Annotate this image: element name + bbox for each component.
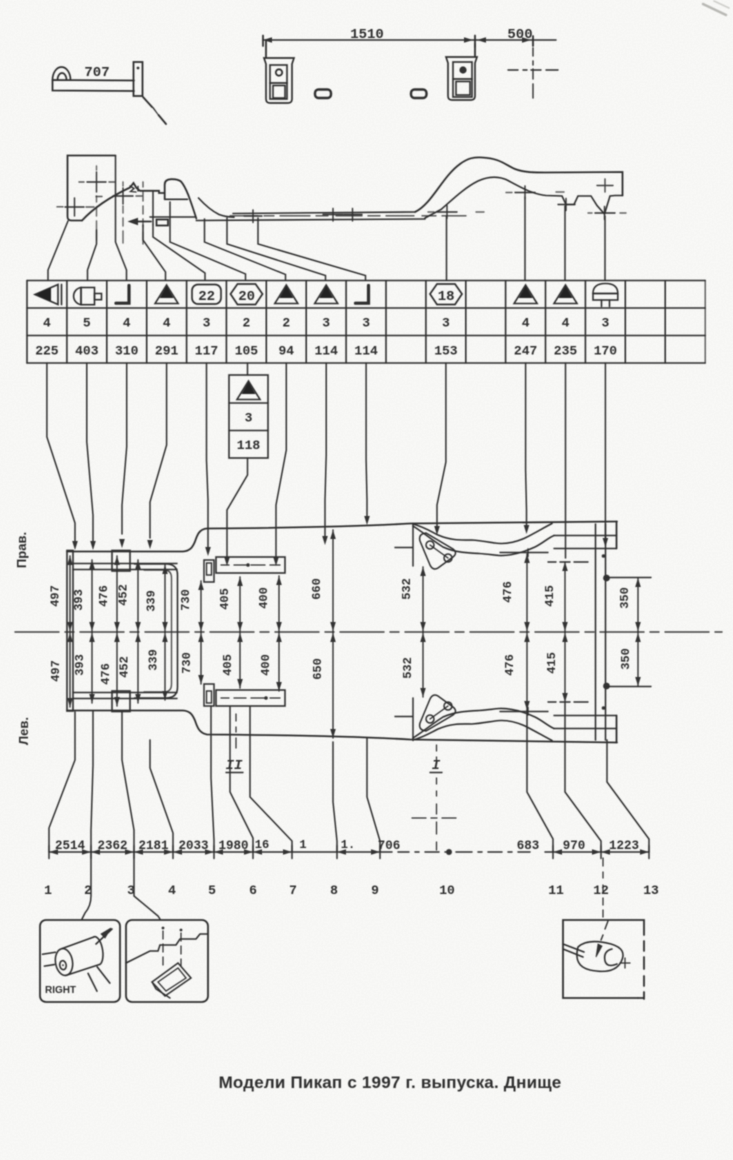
svg-text:532: 532 [400,578,414,600]
svg-text:476: 476 [501,581,515,603]
svg-text:339: 339 [145,590,159,612]
svg-text:476: 476 [503,654,517,676]
tool icon 707 : end block [134,62,143,96]
svg-text:16: 16 [255,838,269,852]
svg-text:1: 1 [299,838,306,852]
svg-text:118: 118 [237,438,261,453]
svg-text:400: 400 [259,654,273,676]
leader st12 [565,703,601,852]
right body mount [446,44,477,100]
dim 405 bottom [221,632,243,688]
side view rear kickup outline bottom [425,177,623,218]
leader col1 to plan [47,363,78,550]
svg-text:8: 8 [330,883,338,898]
leader st7 [250,707,292,852]
leader to col5 [153,225,205,281]
svg-text:1510: 1510 [350,27,384,43]
crosshair G rail mid3 [344,209,362,222]
dim 350 bottom [619,632,641,686]
rail center dash-dot line [230,215,466,217]
slot hole left [315,90,331,99]
dim 452 bottom [118,632,141,703]
side view front rail rising edge [82,183,165,221]
tool icon 707 : hook arch [53,67,71,80]
detail box2 frame [126,920,208,1002]
leader chain to box3 dashed [602,858,604,917]
svg-text:3: 3 [203,316,211,331]
dim 452 top [117,560,141,632]
leader to col7 [205,219,286,280]
crosshair I rear top [506,186,564,199]
box2 tilted bracket [152,963,191,998]
dim 393 top [72,560,95,632]
leader to col15 [604,216,606,280]
crosshair K notch2 [588,207,626,220]
svg-text:403: 403 [75,344,99,359]
svg-text:415: 415 [545,652,559,674]
rear rail wave bottom outer [413,721,552,741]
front box inner [144,570,172,692]
svg-text:683: 683 [517,839,540,853]
svg-text:2181: 2181 [138,839,168,853]
svg-text:3: 3 [362,316,370,331]
dim 405 top [218,577,243,632]
dim 730 top [179,581,204,632]
rear rail wave bottom inner [413,708,554,738]
svg-text:339: 339 [147,649,161,671]
symbol col9 : angle bracket [356,286,369,304]
svg-text:3: 3 [442,316,450,331]
extension ticks rear [500,549,651,715]
leader to col6 [170,202,246,280]
svg-text:94: 94 [278,344,294,359]
box2 dash verticals [162,927,183,966]
svg-text:650: 650 [311,658,325,680]
svg-text:3: 3 [601,316,609,331]
svg-text:247: 247 [514,344,537,359]
rear rail inner top [554,548,617,550]
svg-text:291: 291 [155,344,179,359]
svg-text:452: 452 [118,656,132,678]
symbol col14 : triangle [554,285,577,304]
rear rail crease bottom [554,728,617,730]
svg-text:Модели Пикап с 1997 г. выпуска: Модели Пикап с 1997 г. выпуска. Днище [219,1073,562,1092]
dim 415 bottom [545,632,568,702]
chain ticks [49,846,649,859]
svg-text:5: 5 [83,316,91,331]
svg-text:153: 153 [434,344,458,359]
svg-text:4: 4 [522,316,530,331]
svg-text:970: 970 [563,839,586,853]
leader col6 to plan [224,458,247,566]
svg-text:730: 730 [180,652,194,674]
svg-text:2033: 2033 [178,839,208,853]
symbol col1 : arrow-left pennant [35,285,62,305]
leader st11 [527,710,553,852]
svg-text:20: 20 [238,289,255,305]
box2 floor profile [126,934,208,963]
left body mount [264,40,294,103]
dim 400 top [257,576,282,632]
detail box1 frame [40,920,120,1002]
leader to col14 [564,206,566,280]
svg-text:II: II [226,758,243,774]
dim 476 bottom [99,632,120,706]
rear rail crease top [554,535,617,537]
leader st9 [367,738,380,852]
svg-text:4: 4 [163,316,171,331]
svg-text:350: 350 [618,587,632,609]
leader col2 to plan [87,363,96,550]
svg-text:400: 400 [257,587,271,609]
svg-text:415: 415 [543,585,557,607]
svg-text:11: 11 [548,883,564,898]
chain node dot [446,849,452,855]
dim 730 bottom [180,632,204,684]
svg-text:405: 405 [221,654,235,676]
leader col5 to plan [205,363,211,556]
rear rail inner bottom [554,715,617,717]
rear junction vertical [395,524,413,741]
svg-text:1.: 1. [341,838,355,852]
leader to col9 [258,218,366,280]
leader col9 to plan [364,363,370,525]
rear end vertical top [616,522,618,549]
tool icon 707 : pointer arrow [143,97,166,124]
dim 350 top [618,578,641,632]
svg-text:170: 170 [594,344,618,359]
rear crossmember verticals [596,524,610,740]
rail inner edges bottom [73,693,177,699]
side view small bracket box [157,220,169,226]
leader chain to box2 [134,852,160,919]
crosshair C [96,182,142,243]
svg-text:1223: 1223 [609,839,639,853]
top dimension line 1510/500 [263,36,556,48]
mini table triangle [237,381,260,400]
crosshair datum right [508,48,558,98]
rear rail wave top outer [413,524,552,544]
svg-text:393: 393 [73,654,87,676]
side view rear kickup outline top [415,157,623,212]
corner scratch [703,4,726,15]
section label II [226,714,243,774]
svg-text:730: 730 [179,589,193,611]
side view mid rail lines [233,212,415,214]
table row2 counts [43,316,610,331]
dim 400 bottom [259,632,282,691]
leader col11 to plan [434,363,446,535]
svg-text:9: 9 [371,883,379,898]
svg-text:4: 4 [168,883,176,898]
leader col14 to plan [565,363,567,558]
leader to col2 [88,230,97,280]
box1 arrow [96,928,112,944]
dim 650 [311,632,336,738]
rail outer edge bottom [67,711,617,743]
symbol col15 : plug cap [593,284,618,307]
svg-text:2: 2 [282,316,290,331]
svg-text:13: 13 [643,883,659,898]
leader st2 [91,711,93,852]
rear rail wave top inner [413,526,554,556]
crosshair H kick area [428,206,484,219]
svg-text:497: 497 [49,660,63,682]
svg-text:476: 476 [99,663,113,685]
transmission crossmember bottom [216,690,285,706]
svg-text:RIGHT: RIGHT [45,985,76,996]
svg-text:1980: 1980 [218,839,248,853]
leader col7 to plan [273,363,286,566]
svg-text:3: 3 [322,316,330,331]
svg-text:310: 310 [115,344,139,359]
dim 660 [310,530,336,632]
svg-text:452: 452 [117,584,131,606]
plan centerline [15,631,722,633]
leader st4 [150,740,173,852]
front crossmember [67,551,73,712]
side view front panel outline [68,156,116,221]
bracket top middle [204,560,214,582]
leader st1 [49,712,75,852]
mini table [229,375,268,458]
symbol col2 : plug [74,288,102,305]
leader to col1 [48,221,68,280]
symbol col13 : triangle [514,285,537,304]
bracket bottom middle [204,684,214,706]
svg-text:6: 6 [249,883,257,898]
svg-text:4: 4 [43,316,51,331]
svg-text:1: 1 [44,883,52,898]
svg-text:2362: 2362 [97,839,127,853]
leader col13 to plan [524,363,530,534]
svg-text:117: 117 [195,344,218,359]
crosshair E rail mid1 [244,210,262,223]
leader col4 to plan [147,363,166,549]
svg-text:12: 12 [593,883,609,898]
rail inner edges top [73,564,177,570]
svg-text:225: 225 [35,344,59,359]
crosshair B [57,198,94,216]
leader to col8 [227,218,326,280]
table row3 heights [35,344,617,359]
leader to col4 [143,225,166,280]
mini table leader top [247,363,249,375]
box3 muffler body [563,942,623,972]
svg-text:532: 532 [401,657,415,679]
chain arrows [49,849,649,855]
svg-text:Лев.: Лев. [16,717,31,745]
dim 339 bottom [147,632,168,700]
crosshair F rail mid2 [323,209,343,222]
dim 497 top [49,556,73,632]
symbol col3 : angle bracket [116,286,129,304]
dim 532 bottom [401,632,426,697]
small mount box bottom [112,691,130,712]
leader col3 to plan [119,363,127,548]
svg-text:5: 5 [208,883,216,898]
spring hanger bottom [420,695,456,731]
dim 476r bottom [503,632,530,710]
detail box3 frame [563,920,644,999]
dim 476 top [97,556,120,632]
small mount box top [112,551,130,572]
symbol col5 : badge 22 [192,285,221,306]
crosshair A [79,166,115,240]
svg-text:22: 22 [198,289,215,305]
svg-text:235: 235 [554,344,578,359]
leader to col3 [116,156,127,280]
side view datum arrow marker [129,219,151,225]
leader to col13 [524,197,526,280]
leader col15 to plan [603,363,609,547]
side view cab mount hump [165,179,197,218]
rear end vertical bottom [616,716,618,743]
leader chain to box1 [82,852,91,919]
leader st3 [122,711,134,852]
svg-text:350: 350 [619,648,633,670]
svg-text:114: 114 [314,344,338,359]
tool icon 707 : bar [53,80,135,91]
symbol col6 : badge 20 [231,284,263,305]
svg-text:3: 3 [245,411,253,426]
dim 532 top [400,567,426,632]
dim 415 top [543,562,568,632]
symbol col7 : triangle [275,285,298,304]
symbol col4 : triangle [155,285,178,304]
rail outer edge top [67,522,617,552]
svg-text:706: 706 [378,839,401,853]
svg-text:10: 10 [439,883,455,898]
svg-text:660: 660 [310,578,324,600]
crosshair L rear end [597,179,613,192]
svg-text:500: 500 [507,27,532,43]
svg-text:7: 7 [289,883,297,898]
station numbers [44,883,659,898]
svg-text:405: 405 [218,588,232,610]
svg-text:114: 114 [354,344,378,359]
crosshair J notch1 [558,199,575,211]
box3 dash arrow [596,921,630,968]
svg-text:476: 476 [97,585,111,607]
table grid [27,281,705,364]
svg-text:I: I [432,758,441,774]
svg-text:4: 4 [123,316,131,331]
section label I [412,745,456,850]
leader st13 [607,740,649,852]
svg-text:4: 4 [562,316,570,331]
svg-text:2: 2 [242,316,250,331]
svg-text:707: 707 [84,65,109,81]
leader st5 [211,706,214,852]
svg-text:2514: 2514 [55,839,86,853]
dim 393 bottom [73,632,95,703]
svg-text:497: 497 [49,585,63,607]
slot hole right [411,90,427,99]
dim 497 bottom [49,632,73,707]
symbol col8 : triangle [315,285,338,304]
svg-text:105: 105 [235,344,259,359]
transmission crossmember top [216,557,285,573]
leader st8 [333,742,337,852]
box1 plug cylinder [41,935,111,998]
svg-text:18: 18 [438,289,455,305]
svg-text:393: 393 [72,589,86,611]
chain line [49,851,649,853]
leader st6 [230,707,253,852]
front box rounded [135,564,178,698]
svg-text:Прав.: Прав. [14,532,29,568]
leader col8 to plan [322,363,328,545]
leader to col11 [446,216,448,280]
dim 339 top [145,565,168,632]
crosshair D rail left [142,182,144,244]
spring hanger top [420,533,456,569]
dim 476r top [501,554,530,632]
symbol col11 : badge 18 [430,284,462,305]
